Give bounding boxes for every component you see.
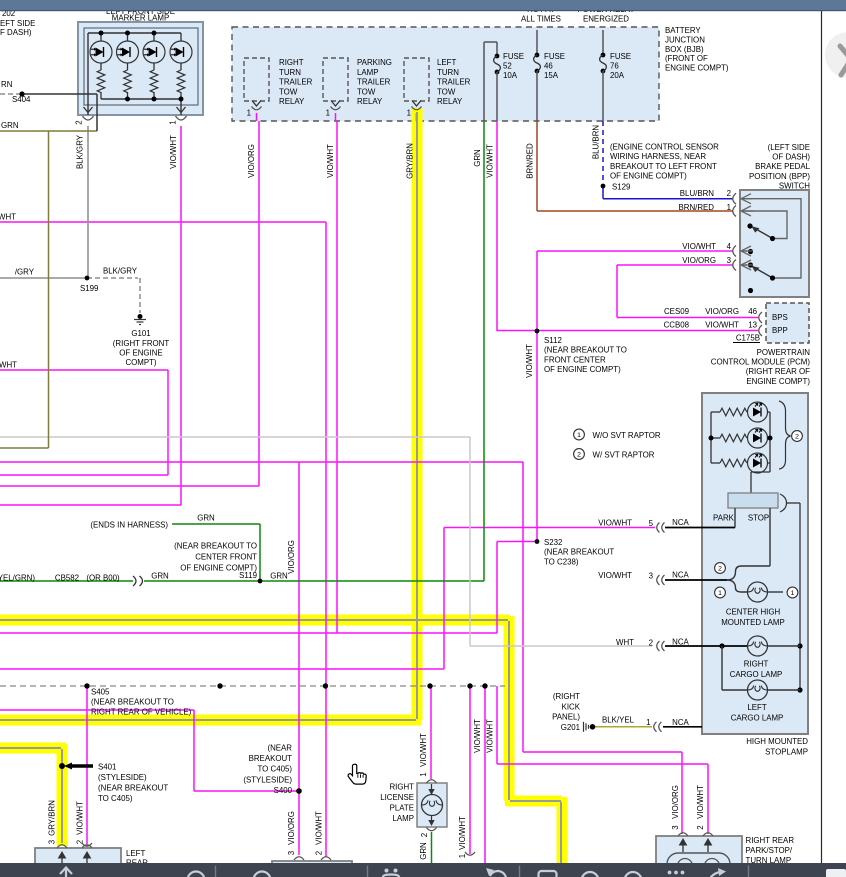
svg-text:BRN/RED: BRN/RED [678, 203, 714, 212]
svg-text:RELAY: RELAY [437, 97, 463, 106]
svg-text:PARKING: PARKING [357, 58, 392, 67]
svg-text:1: 1 [791, 590, 795, 597]
svg-text:BLU/BRN: BLU/BRN [592, 125, 601, 160]
svg-text:G201: G201 [561, 723, 580, 732]
svg-text:LAMP: LAMP [393, 814, 415, 823]
svg-text:3: 3 [649, 572, 654, 581]
svg-text:VIO/WHT: VIO/WHT [598, 571, 632, 580]
svg-text:WHT: WHT [616, 638, 634, 647]
svg-text:1: 1 [169, 120, 178, 124]
svg-text:GRY/BRN: GRY/BRN [48, 800, 57, 836]
svg-text:S405: S405 [91, 688, 110, 697]
svg-text:5: 5 [649, 519, 654, 528]
svg-text:VIO/WHT: VIO/WHT [486, 719, 495, 753]
svg-text:CARGO LAMP: CARGO LAMP [731, 714, 784, 723]
svg-text:76: 76 [610, 62, 619, 71]
svg-text:1: 1 [326, 109, 330, 118]
svg-text:VIO/WHT: VIO/WHT [315, 811, 324, 845]
svg-text:(RIGHT REAR OF: (RIGHT REAR OF [746, 367, 810, 376]
svg-text:2: 2 [420, 833, 429, 837]
svg-text:ALL TIMES: ALL TIMES [521, 15, 561, 24]
svg-text:10A: 10A [503, 71, 518, 80]
svg-text:WIRING HARNESS, NEAR: WIRING HARNESS, NEAR [610, 152, 706, 161]
svg-text:1: 1 [247, 109, 251, 118]
svg-text:GRN: GRN [419, 842, 428, 860]
svg-text:BLU/BRN: BLU/BRN [680, 189, 715, 198]
svg-text:VIO/ORG: VIO/ORG [705, 307, 739, 316]
svg-text:VIO/WHT: VIO/WHT [76, 801, 85, 835]
svg-text:1: 1 [407, 109, 411, 118]
svg-text:2: 2 [718, 566, 722, 573]
svg-text:(STYLESIDE): (STYLESIDE) [98, 773, 147, 782]
svg-text:RIGHT: RIGHT [744, 660, 769, 669]
svg-text:3: 3 [671, 825, 680, 830]
svg-text:1: 1 [727, 203, 731, 212]
svg-text:(FRONT OF: (FRONT OF [665, 54, 708, 63]
svg-text:1: 1 [458, 854, 467, 858]
svg-text:S119: S119 [239, 571, 257, 580]
svg-text:ENGINE COMPT): ENGINE COMPT) [746, 377, 810, 386]
svg-text:1: 1 [646, 718, 650, 727]
svg-text:2: 2 [795, 434, 799, 441]
svg-text:GRN: GRN [1, 121, 19, 130]
svg-text:RELAY: RELAY [357, 97, 383, 106]
svg-text:MOUNTED LAMP: MOUNTED LAMP [721, 618, 785, 627]
svg-text:CB582: CB582 [55, 574, 79, 583]
svg-text:NCA: NCA [672, 518, 689, 527]
svg-text:20A: 20A [610, 71, 625, 80]
svg-text:3: 3 [727, 256, 732, 265]
svg-text:TURN: TURN [437, 68, 459, 77]
svg-text:TOW: TOW [437, 87, 456, 96]
svg-text:OF ENGINE COMPT): OF ENGINE COMPT) [610, 172, 687, 181]
svg-text:CES09: CES09 [664, 307, 690, 316]
svg-text:(STYLESIDE): (STYLESIDE) [243, 775, 292, 784]
svg-text:(NEAR: (NEAR [267, 744, 292, 753]
svg-text:/GRY: /GRY [15, 268, 35, 277]
svg-text:GRN: GRN [151, 572, 169, 581]
svg-text:46: 46 [544, 62, 553, 71]
svg-text:CENTER FRONT: CENTER FRONT [195, 553, 257, 562]
svg-text:C175B: C175B [736, 334, 760, 343]
svg-text:(OR B00): (OR B00) [86, 574, 120, 583]
svg-text:STOP: STOP [748, 514, 769, 523]
svg-text:RIGHT REAR OF VEHICLE): RIGHT REAR OF VEHICLE) [91, 708, 192, 717]
svg-text:VIO/ORG: VIO/ORG [287, 811, 296, 845]
svg-text:2: 2 [75, 120, 84, 124]
svg-text:GRN: GRN [270, 572, 288, 581]
svg-text:BREAKOUT: BREAKOUT [249, 754, 293, 763]
svg-text:JUNCTION: JUNCTION [665, 35, 705, 44]
svg-text:WHT: WHT [0, 361, 17, 370]
svg-text:VIO/WHT: VIO/WHT [682, 242, 716, 251]
svg-text:VIO/ORG: VIO/ORG [287, 540, 296, 574]
svg-text:2: 2 [315, 851, 324, 855]
svg-text:2: 2 [649, 639, 653, 648]
svg-text:F DASH): F DASH) [0, 28, 32, 37]
svg-text:(RIGHT FRONT: (RIGHT FRONT [113, 339, 170, 348]
svg-text:S129: S129 [612, 183, 631, 192]
svg-text:VIO/WHT: VIO/WHT [419, 733, 428, 767]
svg-text:VIO/WHT: VIO/WHT [696, 785, 705, 819]
svg-text:CONTROL MODULE (PCM): CONTROL MODULE (PCM) [711, 358, 811, 367]
svg-text:W/ SVT RAPTOR: W/ SVT RAPTOR [593, 451, 655, 460]
svg-text:POSITION (BPP): POSITION (BPP) [749, 172, 810, 181]
svg-text:BRAKE PEDAL: BRAKE PEDAL [755, 162, 810, 171]
svg-text:PARK: PARK [713, 514, 735, 523]
svg-text:GRN: GRN [473, 149, 482, 167]
svg-text:S199: S199 [80, 284, 99, 293]
svg-text:HIGH MOUNTED: HIGH MOUNTED [746, 737, 808, 746]
svg-text:KICK: KICK [562, 702, 581, 711]
svg-text:TO C405): TO C405) [98, 794, 133, 803]
svg-text:TOW: TOW [357, 87, 376, 96]
svg-text:LAMP: LAMP [357, 68, 379, 77]
svg-text:VIO/ORG: VIO/ORG [671, 785, 680, 819]
svg-text:WHT: WHT [0, 213, 16, 222]
svg-text:NCA: NCA [672, 571, 689, 580]
svg-text:OF DASH): OF DASH) [772, 153, 810, 162]
svg-text:46: 46 [748, 307, 757, 316]
svg-text:3: 3 [287, 850, 296, 855]
svg-text:BLK/GRY: BLK/GRY [76, 134, 85, 169]
svg-text:(RIGHT: (RIGHT [553, 692, 580, 701]
svg-text:ENGINE COMPT): ENGINE COMPT) [665, 64, 729, 73]
svg-text:SWITCH: SWITCH [779, 181, 810, 190]
svg-text:VIO/WHT: VIO/WHT [486, 144, 495, 178]
svg-text:(ENGINE CONTROL SENSOR: (ENGINE CONTROL SENSOR [610, 143, 719, 152]
svg-text:BPP: BPP [772, 326, 788, 335]
svg-text:TRAILER: TRAILER [437, 78, 471, 87]
svg-text:4: 4 [727, 242, 732, 251]
svg-text:CENTER HIGH: CENTER HIGH [726, 608, 781, 617]
svg-text:1: 1 [577, 432, 581, 439]
svg-text:W/O SVT RAPTOR: W/O SVT RAPTOR [593, 431, 661, 440]
svg-text:BLK/YEL: BLK/YEL [602, 716, 635, 725]
svg-text:(NEAR BREAKOUT TO: (NEAR BREAKOUT TO [544, 346, 627, 355]
svg-text:BATTERY: BATTERY [665, 26, 701, 35]
svg-text:G101: G101 [131, 329, 150, 338]
svg-text:RELAY: RELAY [279, 97, 305, 106]
svg-text:2: 2 [696, 825, 705, 829]
svg-text:(ENDS IN HARNESS): (ENDS IN HARNESS) [90, 521, 168, 530]
svg-text:BREAKOUT TO LEFT FRONT: BREAKOUT TO LEFT FRONT [610, 162, 717, 171]
svg-text:PANEL): PANEL) [552, 713, 580, 722]
svg-text:YEL/GRN): YEL/GRN) [0, 574, 35, 583]
svg-text:VIO/WHT: VIO/WHT [458, 816, 467, 850]
svg-text:52: 52 [503, 62, 512, 71]
svg-text:TRAILER: TRAILER [357, 78, 391, 87]
svg-text:VIO/WHT: VIO/WHT [326, 144, 335, 178]
svg-text:GRY/BRN: GRY/BRN [406, 143, 415, 179]
svg-text:RN: RN [1, 80, 13, 89]
svg-text:LEFT: LEFT [437, 58, 456, 67]
svg-text:LEFT: LEFT [126, 849, 145, 858]
svg-text:BOX (BJB): BOX (BJB) [665, 45, 704, 54]
svg-text:2: 2 [727, 189, 731, 198]
svg-text:POWERTRAIN: POWERTRAIN [757, 348, 811, 357]
svg-text:VIO/WHT: VIO/WHT [598, 519, 632, 528]
svg-text:RIGHT: RIGHT [389, 783, 414, 792]
svg-text:FUSE: FUSE [610, 52, 631, 61]
svg-text:COMPT): COMPT) [125, 358, 156, 367]
svg-text:(NEAR BREAKOUT TO: (NEAR BREAKOUT TO [174, 542, 257, 551]
svg-text:TURN: TURN [279, 68, 301, 77]
svg-text:VIO/WHT: VIO/WHT [169, 135, 178, 169]
svg-text:LEFT: LEFT [747, 703, 766, 712]
svg-text:TRAILER: TRAILER [279, 78, 313, 87]
svg-text:PLATE: PLATE [390, 804, 414, 813]
svg-text:S112: S112 [544, 336, 562, 345]
svg-text:S232: S232 [544, 538, 562, 547]
svg-text:CCB08: CCB08 [664, 321, 690, 330]
svg-text:VIO/ORG: VIO/ORG [247, 144, 256, 178]
svg-text:1: 1 [718, 590, 722, 597]
svg-text:NCA: NCA [672, 718, 689, 727]
svg-text:MARKER LAMP: MARKER LAMP [112, 14, 169, 23]
svg-text:TOW: TOW [279, 87, 298, 96]
svg-text:OF ENGINE COMPT): OF ENGINE COMPT) [544, 365, 621, 374]
svg-text:EFT SIDE: EFT SIDE [0, 19, 35, 28]
svg-text:CARGO LAMP: CARGO LAMP [730, 670, 783, 679]
svg-text:TO C238): TO C238) [544, 557, 579, 566]
svg-text:13: 13 [748, 321, 757, 330]
svg-text:VIO/WHT: VIO/WHT [705, 321, 739, 330]
svg-text:LICENSE: LICENSE [380, 793, 414, 802]
svg-text:S401: S401 [98, 763, 116, 772]
svg-text:BPS: BPS [772, 313, 788, 322]
svg-text:(NEAR BREAKOUT: (NEAR BREAKOUT [98, 784, 168, 793]
svg-text:1: 1 [419, 772, 428, 776]
svg-text:RIGHT REAR: RIGHT REAR [746, 836, 795, 845]
svg-text:FRONT CENTER: FRONT CENTER [544, 355, 606, 364]
svg-text:BRN/RED: BRN/RED [526, 143, 535, 179]
svg-text:VIO/WHT: VIO/WHT [525, 344, 534, 378]
svg-text:PARK/STOP/: PARK/STOP/ [746, 846, 793, 855]
svg-text:(NEAR BREAKOUT TO: (NEAR BREAKOUT TO [91, 698, 174, 707]
svg-text:15A: 15A [544, 71, 559, 80]
svg-text:VIO/ORG: VIO/ORG [682, 256, 716, 265]
svg-text:FUSE: FUSE [503, 52, 524, 61]
svg-text:S400: S400 [274, 786, 293, 795]
svg-text:VIO/WHT: VIO/WHT [473, 719, 482, 753]
svg-text:3: 3 [48, 839, 57, 844]
svg-text:2: 2 [577, 452, 581, 459]
svg-text:FUSE: FUSE [544, 52, 565, 61]
svg-text:ENERGIZED: ENERGIZED [583, 15, 629, 24]
svg-text:(LEFT SIDE: (LEFT SIDE [768, 143, 810, 152]
svg-text:OF ENGINE: OF ENGINE [119, 349, 162, 358]
svg-text:RIGHT: RIGHT [279, 58, 304, 67]
svg-text:GRN: GRN [197, 514, 215, 523]
svg-text:TO C405): TO C405) [258, 765, 293, 774]
svg-text:BLK/GRY: BLK/GRY [103, 267, 138, 276]
svg-text:STOPLAMP: STOPLAMP [765, 748, 808, 757]
svg-text:(NEAR BREAKOUT: (NEAR BREAKOUT [544, 548, 614, 557]
